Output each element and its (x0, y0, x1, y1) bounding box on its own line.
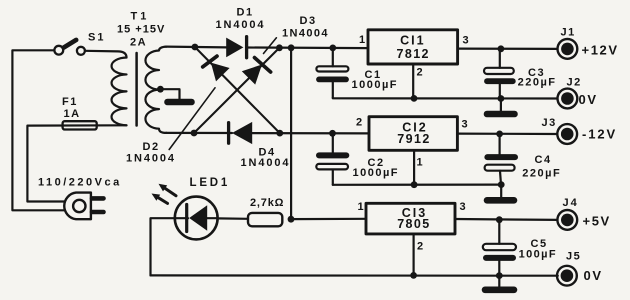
svg-text:7912: 7912 (397, 132, 430, 146)
AC plug 110/220Vca (64, 193, 103, 220)
regulator CI3 7805 (366, 203, 455, 234)
node B junction (secondary bottom / D3 diagonal) (191, 130, 198, 137)
LED1 emission arrows (152, 184, 177, 204)
wire diagonal D2 branch (195, 47, 280, 133)
wire CI1 pin 2 down (412, 64, 414, 98)
svg-text:LED1: LED1 (190, 177, 231, 189)
junction center tap (157, 86, 164, 93)
transformer T1 primary winding (112, 58, 127, 126)
junction C5 bottom / 0V (496, 272, 503, 279)
diode D2 1N4004 (203, 56, 230, 81)
svg-text:2: 2 (417, 67, 424, 79)
junction CI2 pin1 (411, 181, 418, 188)
svg-text:7812: 7812 (396, 47, 429, 61)
svg-text:100µF: 100µF (519, 249, 557, 261)
svg-text:1N4004: 1N4004 (241, 157, 291, 169)
svg-text:2: 2 (417, 241, 424, 253)
svg-text:220µF: 220µF (522, 168, 561, 180)
diode D1 1N4004 (226, 37, 246, 58)
capacitor C1 1000uF (316, 48, 348, 98)
svg-text:110/220Vca: 110/220Vca (38, 177, 122, 189)
wire 0V to ground bar row1 (500, 99, 502, 111)
wire junction to CI3 pin 1 (291, 218, 366, 221)
svg-text:3: 3 (463, 35, 470, 47)
junction C5 top (496, 216, 503, 223)
svg-text:1: 1 (358, 201, 365, 213)
svg-text:1N4004: 1N4004 (282, 28, 329, 40)
svg-text:+5V: +5V (583, 213, 611, 228)
wire LED return loop to 0V rail (151, 218, 175, 275)
junction C3 top (498, 45, 505, 52)
svg-text:15 +15V: 15 +15V (117, 24, 165, 36)
svg-text:1000µF: 1000µF (353, 167, 400, 179)
wire top rail: secondary top to D1 (166, 45, 226, 48)
junction CI3 pin2 / 0V (410, 272, 417, 279)
transformer T1 secondary winding (145, 47, 166, 133)
svg-text:D3: D3 (300, 15, 317, 27)
LED1 (175, 197, 218, 240)
jack J3 (557, 124, 577, 144)
junction +raw feed to CI3 (288, 44, 295, 51)
svg-text:2A: 2A (130, 37, 147, 49)
jack J5 (557, 266, 577, 286)
svg-text:1A: 1A (64, 108, 81, 120)
svg-text:S1: S1 (88, 32, 105, 44)
svg-text:2,7kΩ: 2,7kΩ (250, 197, 284, 209)
wire bottom rail: secondary bottom to D4 (166, 132, 232, 134)
svg-text:J4: J4 (563, 197, 579, 209)
wire center tap (160, 89, 179, 99)
ground (center tap bar) (168, 99, 192, 106)
capacitor C5 100uF (483, 220, 516, 276)
wire 0V to ground bar row3 (498, 276, 500, 287)
wire top rail: D1 to CI1 pin 1 (247, 46, 368, 49)
wire diagonal D3 branch (194, 48, 279, 133)
switch S1 (54, 40, 85, 55)
svg-text:J2: J2 (567, 76, 582, 88)
wire CI3 pin 2 down (413, 234, 415, 276)
junction C3 bottom / 0V (498, 95, 505, 102)
capacitor C2 1000uF (316, 133, 348, 185)
svg-text:J1: J1 (561, 27, 576, 39)
transformer T1 core (135, 53, 138, 126)
ground below C4 (487, 197, 514, 204)
wire C2 bottom rail (333, 184, 501, 186)
resistor 2,7k (248, 213, 282, 226)
junction CI1 pin2 / 0V (411, 95, 418, 102)
svg-text:C4: C4 (535, 154, 552, 166)
wire CI2 pin 1 down (413, 150, 415, 184)
wire to ground bar row2 (500, 185, 502, 197)
svg-text:1: 1 (359, 34, 365, 46)
svg-text:+12V: +12V (582, 43, 619, 58)
junction C1 (329, 45, 336, 52)
node A junction (secondary top / D2 diagonal) (192, 44, 199, 51)
junction C4 bottom (498, 181, 505, 188)
regulator CI1 7812 (368, 30, 458, 64)
jack J1 (558, 39, 578, 59)
svg-text:1N4004: 1N4004 (216, 19, 266, 31)
wire LED to resistor (218, 217, 248, 220)
wire S1 to transformer primary top (85, 51, 127, 58)
wire +raw feed down to CI3 input (290, 48, 292, 219)
svg-text:7805: 7805 (397, 217, 430, 231)
capacitor C4 220uF (485, 134, 515, 185)
svg-text:F1: F1 (62, 96, 78, 108)
wire CI2 output to J3 (457, 133, 557, 136)
jack J4 (557, 210, 577, 230)
svg-text:1000µF: 1000µF (352, 79, 399, 91)
junction C4 top (496, 131, 503, 138)
svg-text:D2: D2 (143, 141, 160, 153)
wire bottom rail: D4 to CI2 pin 2 (252, 132, 368, 134)
svg-text:3: 3 (462, 119, 469, 131)
svg-text:J5: J5 (566, 250, 581, 262)
fuse F1 (63, 121, 97, 129)
svg-text:T1: T1 (131, 11, 150, 23)
svg-text:D1: D1 (237, 6, 254, 18)
capacitor C3 220uF (484, 49, 514, 99)
jack J2 (558, 89, 578, 109)
svg-text:1N4004: 1N4004 (126, 153, 176, 165)
junction D2 anode / -raw node (276, 130, 283, 137)
ground below C3 (487, 111, 515, 118)
wire mains outer loop (plug lower to S1 left) (12, 50, 64, 210)
svg-text:0V: 0V (584, 268, 603, 283)
leader line to D3 label (264, 38, 277, 54)
wire primary bottom through fuse to plug upper (27, 125, 126, 201)
diode D4 1N4004 (229, 122, 253, 144)
svg-text:2: 2 (356, 117, 363, 129)
junction C2 top (329, 130, 336, 137)
wire bottom 0V rail (151, 274, 558, 277)
leader line to D2 label (169, 88, 215, 150)
wire 0V rail row1 (333, 97, 558, 100)
svg-text:J3: J3 (542, 117, 557, 129)
svg-text:CI1: CI1 (400, 34, 425, 48)
svg-text:0V: 0V (579, 92, 598, 107)
svg-text:-12V: -12V (582, 127, 617, 142)
svg-text:1: 1 (417, 157, 424, 169)
ground below J5 rail (485, 286, 514, 293)
diode D3 1N4004 (242, 58, 271, 85)
wire CI3 output to J4 (455, 218, 558, 221)
svg-text:220µF: 220µF (518, 76, 557, 88)
junction D3 cathode to +rail (276, 44, 283, 51)
svg-text:3: 3 (460, 201, 467, 213)
junction resistor / CI3 input (288, 216, 295, 223)
regulator CI2 7912 (369, 117, 457, 151)
wire CI1 output to J1 (458, 47, 558, 50)
